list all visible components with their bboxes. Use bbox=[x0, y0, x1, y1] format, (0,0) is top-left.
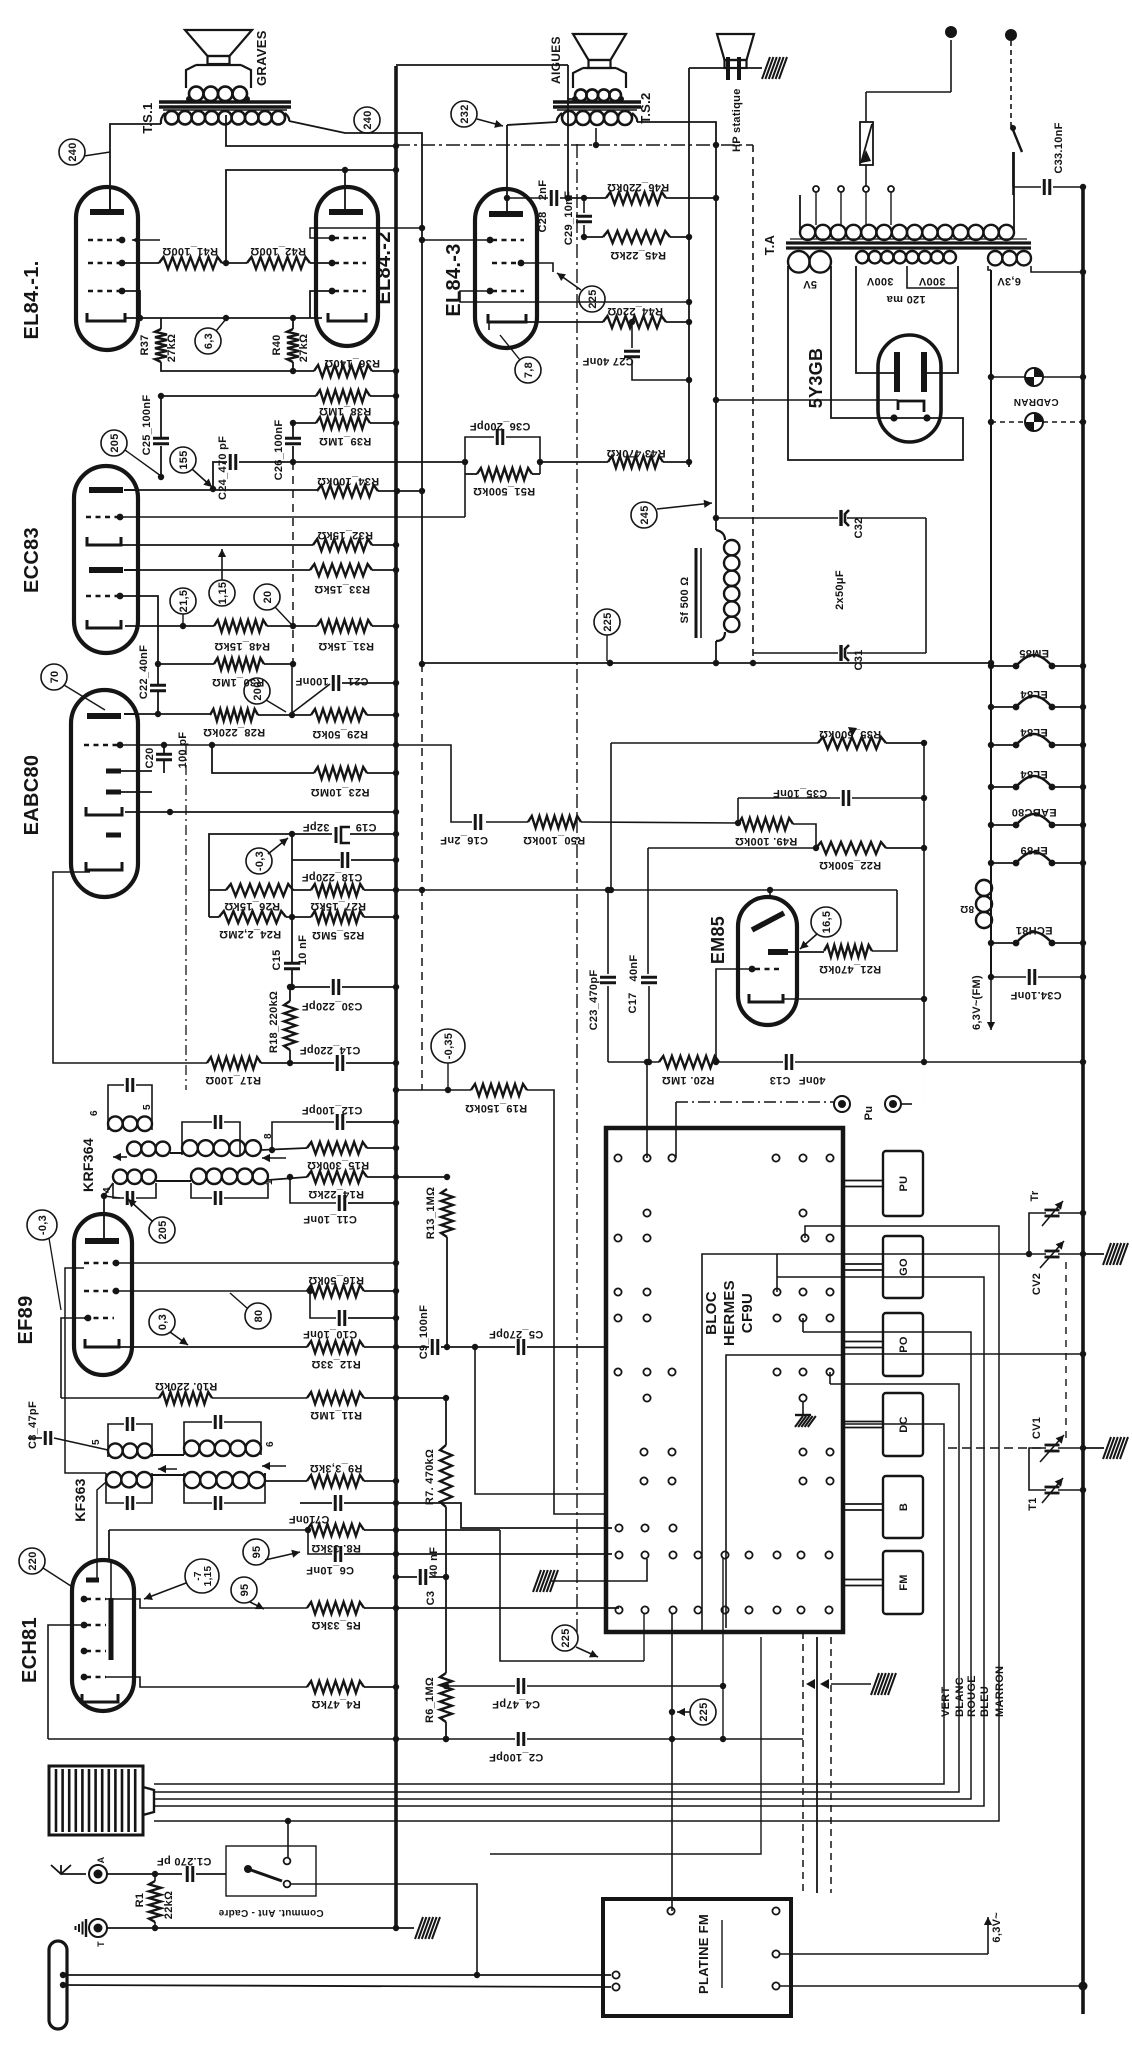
tube EABC80 envelope bbox=[71, 690, 138, 897]
resistor R41 100R bbox=[159, 257, 222, 269]
capacitor C4 47pF bbox=[446, 1685, 515, 1687]
wire PU dash line bbox=[676, 1101, 834, 1103]
node 225 marker bottom bbox=[690, 1699, 716, 1725]
svg-text:240: 240 bbox=[67, 142, 79, 161]
svg-text:R17_100Ω: R17_100Ω bbox=[205, 1074, 261, 1086]
node 95 marker bbox=[243, 1539, 269, 1565]
svg-text:EM85: EM85 bbox=[708, 916, 728, 964]
svg-text:R41_100Ω: R41_100Ω bbox=[162, 245, 218, 257]
svg-text:232: 232 bbox=[459, 104, 471, 123]
svg-text:70: 70 bbox=[49, 671, 61, 684]
capacitor C16 2nF bbox=[396, 745, 472, 822]
capacitor C7 10nF bbox=[300, 1502, 332, 1504]
resistor R31 15k bbox=[317, 620, 372, 632]
heater dropper coil 8ohm bbox=[976, 880, 992, 896]
svg-text:R11_1MΩ: R11_1MΩ bbox=[310, 1409, 362, 1421]
node -7 / 1,15 marker bbox=[185, 1559, 219, 1593]
switch lever bbox=[244, 1865, 252, 1873]
wire ECC83 k2 line bbox=[125, 625, 214, 627]
tube EL84-1 cathode bbox=[87, 313, 125, 321]
wire switch to frame line bbox=[290, 1884, 477, 1975]
svg-text:C30_220pF: C30_220pF bbox=[302, 1000, 363, 1012]
svg-text:C20: C20 bbox=[144, 747, 156, 768]
resistor R19 150k bbox=[396, 1089, 471, 1091]
terminal T bbox=[89, 1919, 107, 1937]
svg-text:5Y3GB: 5Y3GB bbox=[806, 348, 826, 409]
resistor R26 15k bbox=[226, 884, 293, 896]
svg-text:300V: 300V bbox=[918, 275, 945, 287]
tube EL84-1 envelope bbox=[76, 187, 138, 350]
tube EM85 eye bar bbox=[752, 913, 784, 930]
svg-text:1,15: 1,15 bbox=[217, 582, 229, 605]
variable capacitor CV1 bbox=[948, 1447, 1046, 1449]
trimmer Tr bbox=[1045, 1209, 1060, 1212]
svg-text:155: 155 bbox=[178, 450, 190, 469]
svg-text:R38_1MΩ: R38_1MΩ bbox=[319, 405, 372, 417]
svg-text:100 pF: 100 pF bbox=[177, 732, 189, 769]
capacitor C15 10nF bbox=[291, 917, 293, 962]
tuner block BLOC HERMES CF9U outline bbox=[606, 1128, 843, 1632]
speaker AIGUES voice coil bbox=[575, 89, 587, 101]
capacitor C24 470pF bbox=[213, 462, 227, 489]
svg-text:T: T bbox=[96, 1941, 106, 1947]
resistor R45 22k bbox=[584, 236, 603, 238]
transformer TA secondary 6,3V bbox=[988, 251, 1002, 265]
heater EL84 at 707 bbox=[991, 706, 1016, 708]
wire heater supply line bbox=[990, 270, 992, 977]
resistor R18 220k bbox=[289, 987, 291, 1001]
wire TS2 left lead bbox=[507, 122, 557, 125]
resistor R42 100R bbox=[247, 257, 310, 269]
heater EM85 at 666 bbox=[991, 665, 1016, 667]
resistor R43 470k bbox=[540, 461, 608, 463]
button B bbox=[883, 1476, 923, 1538]
tube EM85 grid bbox=[755, 968, 781, 970]
svg-text:EABC80: EABC80 bbox=[1011, 806, 1056, 818]
tube EABC80 cathode k2 bbox=[86, 862, 122, 870]
heater EF89 at 863 bbox=[991, 862, 1016, 864]
capacitor C10 10nF bbox=[310, 1291, 336, 1318]
tube ECC83 cathode k1 bbox=[87, 537, 121, 545]
capacitor C36 200pF bbox=[465, 437, 494, 474]
tube ECH81 grid g4 bbox=[86, 1598, 106, 1600]
rectifier filament connection bar bbox=[894, 417, 927, 419]
svg-text:EL84.-2: EL84.-2 bbox=[373, 231, 395, 304]
wire bloc terminal drop 1 bbox=[722, 1558, 724, 1739]
node 200 marker bbox=[244, 678, 270, 704]
capacitor C21 100nF bbox=[292, 684, 330, 713]
svg-text:PLATINE FM: PLATINE FM bbox=[696, 1914, 711, 1994]
svg-text:C29_10nF: C29_10nF bbox=[563, 191, 575, 245]
wire TS1 centre tap bbox=[226, 115, 396, 146]
svg-text:Commut. Ant - Cadre: Commut. Ant - Cadre bbox=[218, 1907, 323, 1918]
wire bloc terminal drop 2 bbox=[490, 1637, 761, 1854]
svg-text:R4_47kΩ: R4_47kΩ bbox=[311, 1698, 360, 1710]
wire filtered HT line bbox=[422, 662, 991, 664]
svg-text:27kΩ: 27kΩ bbox=[298, 334, 310, 362]
svg-text:C8_47pF: C8_47pF bbox=[27, 1401, 39, 1449]
svg-text:0,3: 0,3 bbox=[157, 1314, 169, 1330]
svg-text:BLEU: BLEU bbox=[979, 1686, 991, 1717]
tube ECH81 triode plate bbox=[109, 1598, 114, 1660]
capacitor C22 40nF bbox=[150, 684, 166, 687]
svg-text:KF363: KF363 bbox=[72, 1478, 88, 1522]
resistor R36 140R bbox=[314, 365, 372, 377]
wire EABC80 plate line bbox=[124, 713, 210, 715]
wire cadre line 1 bbox=[63, 1974, 611, 1976]
svg-text:EL84: EL84 bbox=[1020, 726, 1048, 738]
svg-text:1,15: 1,15 bbox=[203, 1566, 214, 1587]
wire grid drive to phase node bbox=[464, 474, 466, 517]
node 80 marker bbox=[245, 1303, 271, 1329]
tube EF89 grid g3 bbox=[84, 1317, 114, 1319]
svg-text:C31: C31 bbox=[853, 649, 865, 670]
wire TA 6,3V to heater line bbox=[988, 266, 991, 270]
svg-text:ECH81: ECH81 bbox=[1016, 924, 1053, 936]
capacitor C14 220pF bbox=[290, 1062, 334, 1064]
svg-text:EF89: EF89 bbox=[1020, 844, 1048, 856]
wire k1 to R26/R24 bbox=[209, 889, 226, 891]
transformer TA primary bbox=[800, 225, 815, 240]
tube EL84-1 grid g3 bbox=[88, 290, 120, 292]
svg-text:C2_100pF: C2_100pF bbox=[489, 1751, 543, 1763]
svg-text:R44_220Ω: R44_220Ω bbox=[607, 305, 663, 317]
svg-text:R7. 470kΩ: R7. 470kΩ bbox=[424, 1449, 436, 1505]
fuse bbox=[865, 165, 867, 186]
resistor R37 27k bbox=[160, 318, 162, 329]
resistor R30 1M bbox=[158, 663, 214, 665]
svg-text:95: 95 bbox=[251, 1546, 263, 1559]
node 6,3 marker bbox=[195, 328, 221, 354]
svg-text:220: 220 bbox=[27, 1551, 39, 1570]
resistor R22 500k bbox=[648, 847, 816, 849]
svg-text:R51_500kΩ: R51_500kΩ bbox=[473, 485, 535, 497]
svg-text:Pu: Pu bbox=[863, 1106, 875, 1121]
svg-text:6,3V~: 6,3V~ bbox=[991, 1912, 1003, 1943]
svg-text:A: A bbox=[96, 1856, 106, 1863]
resistor R38 1M bbox=[161, 395, 316, 397]
tube EL84-3 cathode bbox=[488, 314, 526, 322]
tube ECC83 plate a2 bbox=[89, 567, 123, 573]
svg-text:R32_15kΩ: R32_15kΩ bbox=[317, 529, 373, 541]
wire HP-statique rail bbox=[688, 68, 690, 467]
svg-text:40nF: 40nF bbox=[799, 1074, 826, 1086]
svg-text:EF89: EF89 bbox=[15, 1295, 37, 1344]
resistor R8 33k bbox=[109, 1529, 307, 1531]
tube ECC83 grid g1 bbox=[86, 516, 118, 518]
speaker AIGUES horn bbox=[573, 34, 626, 60]
resistor R10 220k bbox=[61, 1397, 159, 1399]
tube ECH81 grid g2 bbox=[86, 1650, 106, 1652]
capacitor C1 270pF bbox=[186, 1866, 189, 1882]
wire dashed drop to supply node bbox=[752, 145, 754, 663]
wire HT winding to anodes bbox=[856, 266, 895, 373]
svg-text:R24_2,2MΩ: R24_2,2MΩ bbox=[219, 928, 281, 940]
svg-text:R20. 1MΩ: R20. 1MΩ bbox=[662, 1074, 715, 1086]
svg-text:T.S.2: T.S.2 bbox=[638, 92, 653, 123]
svg-text:BLANC: BLANC bbox=[954, 1677, 966, 1717]
svg-text:B: B bbox=[898, 1503, 910, 1511]
svg-text:GO: GO bbox=[898, 1258, 910, 1276]
svg-text:40nF: 40nF bbox=[628, 955, 640, 982]
tube EL84-3 grid g2 bbox=[492, 239, 524, 241]
resistor R33 15k bbox=[310, 564, 372, 576]
resistor R35 500k bbox=[611, 742, 818, 744]
tube ECH81 grid g3 bbox=[86, 1624, 106, 1626]
svg-text:C36_200pF: C36_200pF bbox=[470, 420, 531, 432]
tube EABC80 diode plate d2 bbox=[106, 790, 121, 795]
svg-text:R39_1MΩ: R39_1MΩ bbox=[319, 435, 372, 447]
node 225 marker EL84-3 bbox=[579, 286, 605, 312]
svg-text:R21_470kΩ: R21_470kΩ bbox=[819, 963, 881, 975]
rectifier 5Y3GB filament bbox=[898, 401, 924, 412]
wire EABC80 grid line bbox=[120, 744, 396, 746]
switch box Commut Ant-Cadre bbox=[226, 1846, 316, 1896]
wire heater line upper bbox=[990, 270, 992, 377]
capacitor C8 47pF bbox=[44, 1431, 47, 1445]
tube ECH81 envelope bbox=[72, 1560, 134, 1711]
svg-text:EM85: EM85 bbox=[1019, 647, 1049, 659]
mains plug pin 1 bbox=[945, 26, 957, 38]
capacitor C5 270pF bbox=[517, 1339, 520, 1355]
tube EL84-2 grid g3 bbox=[334, 290, 366, 292]
tuning arrow KRF364 lower bbox=[262, 1157, 286, 1159]
svg-text:240: 240 bbox=[362, 110, 374, 129]
transformer TA primary taps bbox=[815, 192, 817, 225]
resistor R25 5M bbox=[311, 911, 364, 923]
svg-text:EABC80: EABC80 bbox=[21, 755, 43, 836]
resistor R16 50k bbox=[307, 1285, 364, 1297]
tube EM85 cathode bbox=[749, 994, 783, 1002]
svg-text:C3: C3 bbox=[425, 1591, 437, 1606]
resistor R13 1M bbox=[441, 1189, 453, 1237]
svg-text:Tr: Tr bbox=[1029, 1190, 1041, 1201]
wire platine 6,3V feed bbox=[780, 1953, 988, 1955]
wire cadre wire to switch bbox=[287, 1821, 289, 1858]
jack PU left bbox=[834, 1096, 850, 1112]
capacitor C33 10nF bbox=[1013, 186, 1041, 188]
filter choke Sf 500R bbox=[695, 548, 698, 638]
wire platine to bus bbox=[780, 1985, 1083, 1987]
svg-text:R23_10MΩ: R23_10MΩ bbox=[311, 786, 370, 798]
capacitor C23 470pF bbox=[607, 890, 609, 974]
svg-text:CADRAN: CADRAN bbox=[1013, 396, 1058, 407]
wire TS1 left lead to EL84-1 plate bbox=[110, 124, 161, 209]
wire bloc terminal links bbox=[646, 1065, 648, 1158]
mains plug pin 2 bbox=[1005, 29, 1017, 41]
svg-text:R9_3,3kΩ: R9_3,3kΩ bbox=[310, 1462, 363, 1474]
svg-text:C6_10nF: C6_10nF bbox=[306, 1564, 354, 1576]
svg-text:ECC83: ECC83 bbox=[21, 527, 43, 593]
transformer TA secondary 5V bbox=[788, 251, 810, 273]
node -0,3 marker bbox=[246, 848, 272, 874]
svg-text:6,3V~(FM): 6,3V~(FM) bbox=[971, 975, 983, 1030]
svg-text:C34.10nF: C34.10nF bbox=[1010, 989, 1061, 1001]
speaker AIGUES basket bbox=[573, 68, 626, 88]
node 70 marker bbox=[41, 664, 67, 690]
ground lug near bloc bbox=[533, 1570, 541, 1592]
node 1,15 marker bbox=[209, 580, 235, 606]
transformer TS2 core bbox=[553, 100, 641, 103]
svg-text:VERT: VERT bbox=[940, 1686, 952, 1717]
ground at bus bottom bbox=[396, 1927, 414, 1929]
svg-text:PO: PO bbox=[898, 1336, 910, 1353]
svg-text:40 nF: 40 nF bbox=[428, 1547, 440, 1577]
resistor R51 500k bbox=[465, 473, 477, 475]
capacitor C26 100nF bbox=[292, 423, 294, 437]
node 205 marker IF bbox=[149, 1217, 175, 1243]
ground CV2 bbox=[1083, 1253, 1104, 1255]
svg-text:C5_270pF: C5_270pF bbox=[489, 1328, 543, 1340]
svg-text:C25_100nF: C25_100nF bbox=[141, 395, 153, 456]
tube ECH81 cathode bbox=[82, 1694, 118, 1702]
wire HP statique to ground bbox=[739, 67, 762, 69]
IF transformer KF363 coil L3 bbox=[106, 1472, 121, 1487]
wire EF89 g2 line bbox=[116, 1290, 307, 1292]
resistor R23 10M bbox=[212, 745, 314, 773]
tube EL84-2 envelope bbox=[316, 187, 378, 346]
svg-text:AIGUES: AIGUES bbox=[549, 36, 563, 84]
svg-text:C28: C28 bbox=[537, 211, 549, 232]
svg-text:ROUGE: ROUGE bbox=[966, 1675, 978, 1717]
resistor R32 15k bbox=[121, 544, 313, 546]
speaker GRAVES voice coil bbox=[189, 87, 203, 101]
capacitor C12 100pF bbox=[272, 1122, 334, 1152]
resistor R4 47k bbox=[106, 1677, 307, 1687]
svg-text:225: 225 bbox=[587, 289, 599, 308]
svg-text:95: 95 bbox=[239, 1584, 251, 1597]
transformer TS1 core bbox=[159, 100, 291, 103]
ground CV1 bbox=[1083, 1447, 1104, 1449]
wire EF89 g1 AGC line bbox=[116, 1262, 396, 1264]
node 225 marker FM bbox=[552, 1625, 578, 1651]
wire centre tap HT bbox=[907, 266, 958, 288]
node -0,3 marker EF89 bbox=[27, 1210, 57, 1240]
resistor R5 33k bbox=[106, 1599, 307, 1608]
svg-text:R43 470kΩ: R43 470kΩ bbox=[606, 447, 665, 459]
capacitor C13 40nF bbox=[785, 1054, 788, 1070]
capacitor C6 10nF bbox=[308, 1530, 332, 1554]
node 20 marker bbox=[254, 584, 280, 610]
tube EL84-3 grid g3 bbox=[492, 290, 524, 292]
svg-text:300V: 300V bbox=[866, 275, 893, 287]
svg-text:R18_220kΩ: R18_220kΩ bbox=[268, 991, 280, 1053]
svg-text:R37: R37 bbox=[139, 334, 151, 355]
resistor R44 220R bbox=[603, 316, 666, 328]
svg-text:R14_22kΩ: R14_22kΩ bbox=[308, 1188, 364, 1200]
tube EABC80 cathode k1 bbox=[86, 807, 122, 815]
svg-text:KRF364: KRF364 bbox=[80, 1138, 96, 1192]
heater EL84 at 787 bbox=[991, 786, 1016, 788]
svg-text:EL84.-1.: EL84.-1. bbox=[21, 260, 43, 339]
node 0,3 marker bbox=[149, 1309, 175, 1335]
svg-text:ECH81: ECH81 bbox=[19, 1617, 41, 1683]
heater EABC80 at 825 bbox=[991, 824, 1016, 826]
svg-text:6: 6 bbox=[265, 1441, 276, 1447]
node 232 marker bbox=[451, 101, 477, 127]
transformer TA core bbox=[786, 241, 1031, 244]
svg-text:R10. 220kΩ: R10. 220kΩ bbox=[155, 1380, 218, 1392]
tube ECC83 plate a1 bbox=[89, 487, 123, 493]
svg-text:R36_140Ω: R36_140Ω bbox=[324, 357, 380, 369]
transformer TS2 primary winding bbox=[562, 111, 576, 125]
svg-text:R31_15kΩ: R31_15kΩ bbox=[318, 640, 374, 652]
tuner block ground bbox=[802, 1402, 804, 1415]
resistor R29 50k bbox=[311, 709, 367, 721]
svg-text:R34_100kΩ: R34_100kΩ bbox=[317, 475, 379, 487]
svg-text:225: 225 bbox=[602, 612, 614, 631]
svg-text:225: 225 bbox=[560, 1628, 572, 1647]
wire HP statique left lead bbox=[689, 67, 728, 69]
svg-text:-0,35: -0,35 bbox=[443, 1033, 455, 1060]
wire magic eye bus link bbox=[923, 743, 925, 1062]
svg-text:R48_15kΩ: R48_15kΩ bbox=[214, 640, 270, 652]
tube EL84-1 plate bbox=[90, 209, 124, 215]
capacitor C34 10nF bbox=[991, 976, 1026, 978]
wire R37/R40 to R36 bbox=[161, 362, 314, 371]
tube EL84-3 grid g1 bbox=[492, 262, 524, 264]
svg-text:100nF: 100nF bbox=[295, 675, 328, 687]
resistor R12 33R bbox=[307, 1341, 364, 1353]
tuner block inner partition bbox=[702, 1254, 843, 1632]
wire ECC83 g2 to C22 node bbox=[120, 596, 158, 684]
svg-text:C1.270 pF: C1.270 pF bbox=[157, 1855, 212, 1867]
tube EL84-1 grid g2 bbox=[88, 239, 120, 241]
svg-text:20: 20 bbox=[262, 591, 274, 604]
wire cadre line 2 bbox=[63, 1985, 611, 1987]
capacitor C20 100pF bbox=[163, 745, 165, 753]
IF transformer KF363 coil L4 bbox=[184, 1472, 200, 1488]
capacitor C29 10nF bbox=[583, 198, 585, 213]
capacitor C28 2nF bbox=[507, 197, 548, 199]
node 21,5 marker bbox=[170, 588, 196, 614]
svg-text:5: 5 bbox=[142, 1104, 153, 1110]
IF transformer KRF364 coil L5 bbox=[191, 1169, 206, 1184]
svg-text:CV2: CV2 bbox=[1031, 1273, 1043, 1295]
shield ground bbox=[831, 1683, 871, 1685]
capacitor C27 40nF bbox=[631, 322, 633, 348]
wire antenna cable 2 BLANC bbox=[154, 1384, 959, 1792]
wire driver feed to EL84-2 plate line bbox=[226, 170, 396, 263]
tube ECC83 cathode k2 bbox=[87, 620, 121, 628]
capacitor C31 50uF bbox=[716, 652, 838, 654]
capacitor C11 10nF bbox=[290, 1177, 336, 1203]
resistor R17 100R bbox=[207, 1057, 261, 1069]
svg-text:CV1: CV1 bbox=[1031, 1417, 1043, 1439]
wire ECH81 g3 left loop bbox=[48, 1625, 84, 1739]
tube EABC80 diode plate d3 bbox=[106, 833, 121, 838]
node 245 marker bbox=[631, 502, 657, 528]
svg-text:C16_2nF: C16_2nF bbox=[440, 834, 488, 846]
svg-text:BLOC: BLOC bbox=[703, 1291, 720, 1335]
svg-text:R49. 100kΩ: R49. 100kΩ bbox=[735, 835, 798, 847]
svg-text:R22_500kΩ: R22_500kΩ bbox=[819, 859, 881, 871]
variable capacitor CV2 bbox=[1045, 1250, 1060, 1253]
resistor R9 3,3k bbox=[265, 1473, 307, 1481]
resistor R20 1M bbox=[608, 1061, 659, 1063]
svg-text:6: 6 bbox=[89, 1110, 100, 1116]
svg-text:C4_47pF: C4_47pF bbox=[492, 1698, 540, 1710]
tube EM85 target bbox=[768, 949, 788, 955]
dial lamp 1 bbox=[1025, 368, 1043, 386]
resistor R11 1M bbox=[307, 1392, 364, 1404]
svg-text:R33_15kΩ: R33_15kΩ bbox=[314, 583, 370, 595]
button PU bbox=[883, 1151, 923, 1216]
tube EABC80 grid bbox=[84, 744, 118, 746]
resistor R34 100k bbox=[317, 485, 378, 497]
mains switch bbox=[1011, 125, 1022, 152]
tube EF89 grid g1 bbox=[84, 1262, 114, 1264]
